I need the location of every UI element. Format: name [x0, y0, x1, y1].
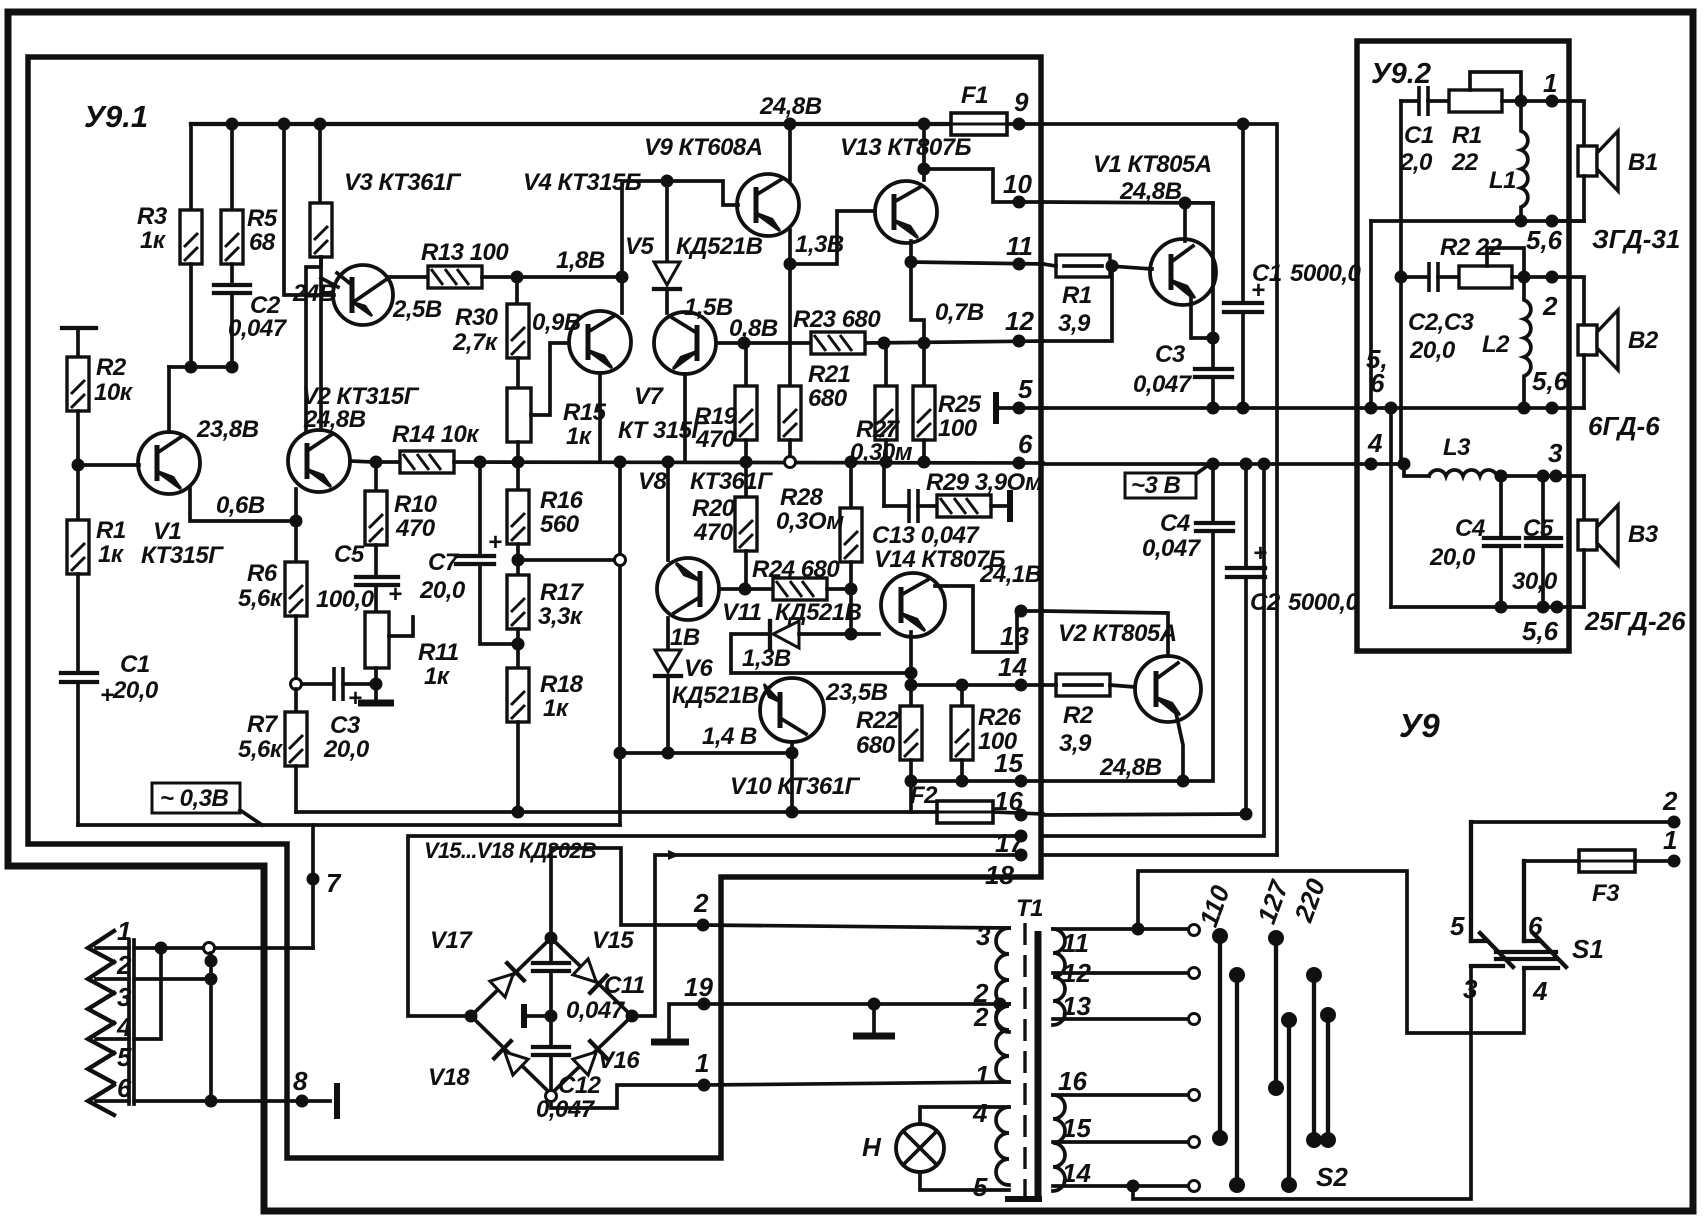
svg-text:5: 5 [117, 1042, 132, 1072]
svg-text:C5: C5 [1523, 515, 1554, 542]
svg-text:V5: V5 [625, 233, 655, 260]
switch S1 contact 5 [1469, 822, 1473, 941]
svg-text:Н: Н [862, 1132, 882, 1162]
wire V2 collector riser [306, 257, 321, 430]
connector pin 5 [88, 1053, 114, 1083]
wire V4 collector riser [620, 277, 624, 313]
svg-text:20,0: 20,0 [1409, 337, 1456, 364]
svg-text:15: 15 [1062, 1113, 1091, 1143]
svg-text:C11: C11 [604, 972, 645, 999]
svg-text:R23 680: R23 680 [793, 306, 881, 333]
transistor V2 KT805A [1135, 656, 1201, 722]
transistor V10 KT361G [760, 678, 824, 742]
svg-text:C13 0,047: C13 0,047 [872, 522, 980, 549]
svg-text:4: 4 [116, 1012, 132, 1042]
svg-text:R20: R20 [692, 495, 736, 522]
connector pin 4 [88, 1023, 114, 1053]
svg-text:C3: C3 [1155, 341, 1186, 368]
svg-text:6: 6 [1528, 911, 1543, 941]
svg-text:2,7к: 2,7к [452, 329, 499, 356]
svg-text:V17: V17 [430, 927, 473, 954]
svg-text:5: 5 [1018, 374, 1033, 404]
wire pin6 row to chassis [134, 1099, 330, 1103]
U9.2 left vertical C [1389, 408, 1393, 607]
svg-text:560: 560 [540, 511, 580, 538]
resistor R2 10k [76, 328, 80, 357]
ground under R11 [374, 684, 378, 701]
svg-text:V11: V11 [722, 599, 762, 626]
wire V8 base to R24 [719, 587, 773, 591]
wire V3 base from bus [284, 124, 334, 295]
svg-text:0,6В: 0,6В [216, 492, 265, 519]
wire lead11 riser to mains [1138, 871, 1524, 1033]
wire pin1 to pin4 link [134, 948, 161, 1039]
transistor V9 KT608A [737, 174, 799, 236]
svg-text:1к: 1к [140, 227, 167, 254]
svg-text:В1: В1 [1628, 149, 1658, 176]
svg-text:S1: S1 [1572, 934, 1604, 964]
wire pin19 stub ground [669, 1004, 704, 1040]
svg-text:470: 470 [695, 426, 736, 453]
switch S1 contact 3 [1471, 964, 1503, 968]
wire pin1 to primary bottom [704, 1082, 1009, 1085]
svg-text:0,30м: 0,30м [850, 439, 913, 466]
wire lead 14 [1053, 1184, 1189, 1188]
capacitor C2 5000.0 [1244, 464, 1248, 568]
T1 secondary winding 16-15-14 [1053, 1095, 1065, 1191]
main bus y=462 segment with R14 [370, 456, 383, 469]
board U9.1 outline [28, 57, 1041, 1158]
svg-text:23,5В: 23,5В [825, 679, 888, 706]
svg-text:7: 7 [326, 868, 342, 898]
wire V8 emitter to bus [666, 462, 670, 560]
wire L3 to node3 [1497, 474, 1584, 478]
resistor R13 100 [428, 266, 482, 288]
wire lamp to winding5 [920, 1172, 1009, 1190]
svg-text:24,1В: 24,1В [979, 561, 1042, 588]
bridge arm V16 [551, 1016, 632, 1094]
svg-text:R16: R16 [540, 487, 584, 514]
node on bus: V9 collector [784, 118, 797, 131]
wire pin19 to primary center tap [704, 1002, 1009, 1006]
svg-text:C3: C3 [330, 712, 361, 739]
svg-text:4: 4 [1532, 976, 1548, 1006]
svg-text:20,0: 20,0 [112, 677, 159, 704]
capacitor C1 20.0 [61, 671, 97, 675]
node 1 U9.2 [1546, 95, 1559, 108]
resistor R16 560 [516, 462, 520, 490]
resistor R2 22 U9.2 [1459, 266, 1512, 288]
svg-text:1,3В: 1,3В [795, 231, 844, 258]
svg-text:R25: R25 [938, 391, 982, 418]
pin 14 [1015, 679, 1028, 692]
input terminal bar on R2 [62, 326, 96, 330]
resistor R7 5.6k [294, 689, 298, 712]
wire F1 to pin9 [1007, 122, 1043, 126]
svg-text:+: + [348, 685, 362, 712]
svg-text:13: 13 [1000, 621, 1029, 651]
svg-text:6: 6 [117, 1073, 132, 1103]
node R16/R17 with test wire [512, 554, 525, 567]
transistor V3 KT361G [333, 265, 393, 325]
node 8 [296, 1095, 309, 1108]
node 2 U9.2 [1546, 271, 1559, 284]
transistor V1 KT315G [138, 432, 200, 494]
bridge center column C12 [533, 1045, 569, 1049]
resistor R18 1k [507, 668, 529, 722]
svg-text:16: 16 [1058, 1066, 1087, 1096]
wire lead 11 [1053, 927, 1189, 931]
resistor R26 100 [960, 685, 964, 706]
svg-text:680: 680 [856, 732, 896, 759]
pin 1 bottom [698, 1079, 711, 1092]
svg-text:R2: R2 [96, 354, 127, 381]
svg-text:1: 1 [975, 1060, 989, 1090]
resistor R25 100 [913, 386, 935, 440]
wire V14 emitter column [909, 632, 913, 706]
node line R3/R5/V1 collector [169, 365, 232, 369]
diode V11 KD521V [768, 621, 772, 648]
capacitor C3' 0.047 [1195, 367, 1232, 371]
svg-text:470: 470 [693, 519, 734, 546]
svg-text:5000,0: 5000,0 [1288, 589, 1360, 616]
svg-text:68: 68 [249, 229, 276, 256]
svg-text:3: 3 [976, 921, 991, 951]
wire lead 16 [1053, 1093, 1189, 1097]
label ~0.3V box [152, 783, 240, 813]
top supply bus 24.8V [191, 122, 951, 126]
svg-text:5,6: 5,6 [1522, 616, 1559, 646]
wire lead 12 [1053, 971, 1189, 975]
wire 0.3V feedback [78, 823, 620, 827]
svg-text:L1: L1 [1489, 167, 1516, 194]
resistor R6 5.6k [294, 521, 298, 562]
wire B3 feed [1582, 476, 1586, 520]
svg-text:1В: 1В [670, 624, 700, 651]
wire 15 row to pin15 [911, 779, 1043, 783]
switch S1 contact 6 [1522, 861, 1526, 941]
wire B1 return [1552, 176, 1584, 221]
wire V2 emitter to bus [350, 461, 372, 462]
wire pin17 to bridge left vertex [408, 836, 1021, 1016]
wire V13 collector to bus and pin10 [922, 124, 926, 180]
resistor R28 0.3M [849, 462, 853, 508]
svg-text:10к: 10к [94, 379, 134, 406]
svg-text:V9 КТ608А: V9 КТ608А [644, 134, 763, 161]
bridge center tap [545, 1010, 558, 1023]
svg-text:V10 КТ361Г: V10 КТ361Г [730, 773, 861, 800]
svg-text:C5: C5 [334, 541, 365, 568]
switch S1 link bar [1496, 950, 1556, 954]
svg-text:+: + [488, 529, 502, 556]
pin 6 [1013, 457, 1026, 470]
svg-text:R29 3,9Ом: R29 3,9Ом [926, 469, 1043, 496]
inductor L2 [1524, 277, 1531, 408]
return row B ZGD-31 [1371, 219, 1584, 223]
wire V3 emitter slant [321, 278, 338, 287]
svg-text:ЗГД-31: ЗГД-31 [1592, 224, 1680, 254]
transistor V7 KT315G [654, 312, 716, 374]
T1 primary winding 3-2-2-1 [996, 928, 1009, 1032]
svg-text:1к: 1к [424, 663, 451, 690]
resistor R22 680 [900, 706, 922, 760]
box U9.2 outline [1357, 41, 1569, 651]
wire mains pin2 [1471, 820, 1674, 824]
svg-text:14: 14 [998, 652, 1027, 682]
column node R15/R16 on bus [512, 456, 525, 469]
wire V14 collector to pin13 [935, 586, 1043, 652]
pin 11 [1013, 258, 1026, 271]
fuse F1 [951, 113, 1007, 135]
svg-text:КТ315Г: КТ315Г [141, 542, 224, 569]
svg-text:R7: R7 [247, 711, 279, 738]
resistor R1 22 U9.2 [1449, 90, 1502, 112]
R1 tap link [1470, 72, 1521, 101]
svg-text:+: + [100, 682, 114, 709]
pin 17 [1015, 830, 1028, 843]
resistor R15 1k (plain with tap) [516, 358, 520, 388]
svg-text:V8: V8 [638, 468, 668, 495]
svg-text:КД521В: КД521В [775, 599, 862, 626]
node on bus: V3 base drop [278, 118, 291, 131]
svg-text:КД521В: КД521В [672, 682, 759, 709]
wire C7 to R17/R18 node [480, 564, 517, 644]
resistor R10 470 [374, 462, 378, 491]
node 7 [307, 873, 320, 886]
svg-text:C12: C12 [558, 1072, 602, 1099]
svg-text:0,047: 0,047 [228, 315, 288, 342]
wire B1 feed [1552, 101, 1584, 146]
svg-text:У9: У9 [1399, 707, 1440, 744]
wire shield column [209, 953, 213, 1101]
svg-text:R3: R3 [137, 203, 168, 230]
svg-text:5000,0: 5000,0 [1290, 260, 1362, 287]
svg-text:1к: 1к [566, 423, 593, 450]
capacitor C3 20.0 [302, 682, 331, 686]
svg-text:R21: R21 [808, 361, 851, 388]
wire C1 down to 0.3V wire [76, 682, 80, 825]
transistor V8 KT361G [657, 558, 719, 620]
resistor R24 680 [773, 578, 827, 600]
resistor R23 680 [811, 332, 865, 354]
svg-text:КТ361Г: КТ361Г [690, 468, 773, 495]
svg-text:R26: R26 [978, 704, 1022, 731]
lamp H [896, 1124, 944, 1172]
svg-text:L3: L3 [1443, 434, 1471, 461]
svg-text:24,8В: 24,8В [1099, 754, 1162, 781]
fuse F2 [937, 801, 993, 823]
wire pin2 row [134, 977, 211, 981]
svg-text:C7: C7 [428, 549, 460, 576]
wire pin18 to bridge right vertex [640, 855, 1021, 1016]
wire V9 emitter down [788, 230, 792, 264]
capacitor C2 0.047 [214, 283, 250, 287]
svg-text:2: 2 [693, 888, 709, 918]
svg-text:14: 14 [1062, 1158, 1091, 1188]
S2 strap f [1326, 1015, 1330, 1140]
speaker B3 [1578, 505, 1618, 565]
svg-text:12: 12 [1005, 306, 1034, 336]
return row F 25GD-26 [1391, 605, 1584, 609]
svg-text:8: 8 [293, 1066, 308, 1096]
S2 strap b [1235, 975, 1239, 1185]
svg-text:В3: В3 [1628, 521, 1659, 548]
wire pin9 rail down right side [1043, 124, 1277, 855]
wire V4 emitter to bus [598, 373, 602, 462]
svg-text:3: 3 [1463, 974, 1478, 1004]
svg-text:1: 1 [1543, 68, 1557, 98]
wire V13 emitter to pin11 [909, 241, 913, 262]
svg-text:V15: V15 [592, 927, 634, 954]
svg-text:~3 В: ~3 В [1131, 472, 1181, 499]
switch S1 contact 4 [1524, 966, 1558, 970]
svg-text:2: 2 [1542, 291, 1558, 321]
svg-text:0,8В: 0,8В [729, 315, 778, 342]
svg-text:+: + [388, 581, 402, 608]
wire V11 to V10 emitter and V14 emitter row [731, 634, 911, 673]
resistor R2' 3.9 [1056, 674, 1110, 696]
svg-text:2: 2 [116, 950, 132, 980]
T1 core dashed [1023, 923, 1026, 1205]
resistor R5 [230, 124, 234, 210]
svg-text:C2,C3: C2,C3 [1408, 309, 1475, 336]
svg-text:100,0: 100,0 [316, 586, 375, 613]
svg-text:F2: F2 [910, 782, 938, 809]
svg-text:У9.2: У9.2 [1371, 58, 1431, 90]
wire node4 to L3 [1404, 464, 1429, 476]
core bottom tick [1005, 1196, 1042, 1202]
T1 secondary winding 11-12-13 [1053, 929, 1065, 1025]
connector pin 2 [88, 962, 114, 993]
svg-text:1к: 1к [543, 695, 570, 722]
return row D 6GD-6 dots [1518, 402, 1531, 415]
R2 tap link [1487, 248, 1524, 277]
wire B2 feed [1552, 277, 1584, 325]
wire V2 emitter to 15 row [1176, 713, 1183, 781]
svg-text:6ГД-6: 6ГД-6 [1588, 411, 1660, 441]
wire lamp to winding4 [920, 1107, 1009, 1124]
wire 14 row to pin14 [911, 683, 1043, 687]
resistor R30 2.7k [515, 277, 519, 304]
pin 18 [1015, 849, 1028, 862]
fuse F3 [1524, 859, 1579, 863]
label ~3V box [1125, 473, 1196, 498]
S2 strap d [1287, 1020, 1291, 1185]
resistor R27 0.30M [884, 343, 888, 386]
resistor R11 1k (plain with tap) [374, 585, 378, 612]
connector pin 3 [88, 993, 114, 1023]
wire V9 collector to bus [788, 124, 792, 180]
svg-text:R13 100: R13 100 [421, 239, 509, 266]
T1 core bar [1035, 931, 1042, 1196]
node on bus: R5 top [226, 118, 239, 131]
transistor V14 KT807B [881, 573, 945, 637]
svg-text:C4: C4 [1160, 510, 1190, 537]
svg-text:V3 КТ361Г: V3 КТ361Г [344, 169, 462, 196]
pin 16 [1015, 809, 1028, 822]
ground on tap wire [868, 998, 881, 1011]
wire bus5 outside to U9.2 [1043, 406, 1584, 410]
pin 13 [1015, 605, 1028, 618]
svg-text:22: 22 [1451, 149, 1479, 176]
svg-text:R17: R17 [540, 579, 585, 606]
svg-text:23,8В: 23,8В [196, 416, 259, 443]
svg-text:V16: V16 [598, 1047, 640, 1074]
wire B2 return [1582, 355, 1586, 408]
svg-text:3,9: 3,9 [1058, 310, 1091, 337]
svg-text:19: 19 [684, 972, 713, 1002]
wire lead 15 [1053, 1140, 1189, 1144]
resistor R4 (unlabeled) [318, 124, 322, 201]
svg-text:2: 2 [973, 1002, 989, 1032]
connector pin 6 [88, 1085, 114, 1115]
wire pin15 row outside [1043, 779, 1183, 783]
svg-text:2,0: 2,0 [1399, 149, 1433, 176]
svg-text:R14 10к: R14 10к [392, 421, 480, 448]
svg-text:1: 1 [695, 1048, 709, 1078]
pin 2 bottom [697, 919, 710, 932]
capacitor C1 5000.0 [1241, 124, 1245, 303]
resistor R19 470 [744, 343, 748, 386]
svg-text:3,9: 3,9 [1059, 730, 1092, 757]
wire bus R14 to pin6 [454, 462, 1043, 463]
svg-text:10: 10 [1003, 169, 1032, 199]
svg-text:9: 9 [1014, 87, 1029, 117]
svg-text:V13 КТ807Б: V13 КТ807Б [840, 134, 972, 161]
svg-text:1,4 В: 1,4 В [702, 723, 757, 750]
wire V8 collector to V6 [666, 618, 670, 650]
wire V13 emitter jog to R25 [911, 262, 924, 386]
wire V9 emitter to V13 base [790, 211, 875, 264]
svg-text:V2 КТ805А: V2 КТ805А [1058, 620, 1177, 647]
chassis bar node 8 [334, 1083, 340, 1119]
svg-text:R6: R6 [247, 560, 278, 587]
svg-text:470: 470 [395, 515, 436, 542]
svg-text:2,5В: 2,5В [392, 296, 442, 323]
inductor L3 [1429, 470, 1497, 476]
svg-text:R10: R10 [394, 491, 438, 518]
svg-text:C1: C1 [120, 651, 150, 678]
svg-text:11: 11 [1006, 231, 1033, 261]
bridge vertices [465, 1010, 478, 1023]
zobel branch C13/R29 [882, 462, 886, 506]
svg-text:1,5В: 1,5В [684, 294, 733, 321]
connector pin 1 [88, 931, 114, 962]
svg-text:100: 100 [938, 415, 978, 442]
resistor R14 10k [400, 451, 454, 473]
svg-text:680: 680 [808, 385, 848, 412]
svg-text:R11: R11 [418, 639, 459, 666]
svg-text:L2: L2 [1482, 331, 1510, 358]
capacitor C5 30.0 U9.2 [1541, 476, 1545, 538]
svg-text:20,0: 20,0 [1429, 544, 1476, 571]
wire pin12 to V1 base node [1043, 266, 1112, 341]
svg-text:16: 16 [994, 786, 1023, 816]
diode V5 KD521V [665, 181, 669, 262]
svg-text:3: 3 [1548, 438, 1563, 468]
input connector body [127, 940, 131, 1104]
svg-text:R1: R1 [96, 517, 126, 544]
svg-text:V1: V1 [153, 518, 182, 545]
svg-text:24,8В: 24,8В [1119, 178, 1182, 205]
wire pin2 to primary top [703, 925, 1009, 928]
svg-text:30,0: 30,0 [1512, 568, 1558, 595]
wire B3 return [1582, 550, 1586, 607]
transistor V4 KT315B [569, 311, 631, 373]
wire V7 emitter to bus [683, 374, 687, 462]
svg-text:C1: C1 [1404, 122, 1434, 149]
svg-text:R1: R1 [1062, 282, 1092, 309]
